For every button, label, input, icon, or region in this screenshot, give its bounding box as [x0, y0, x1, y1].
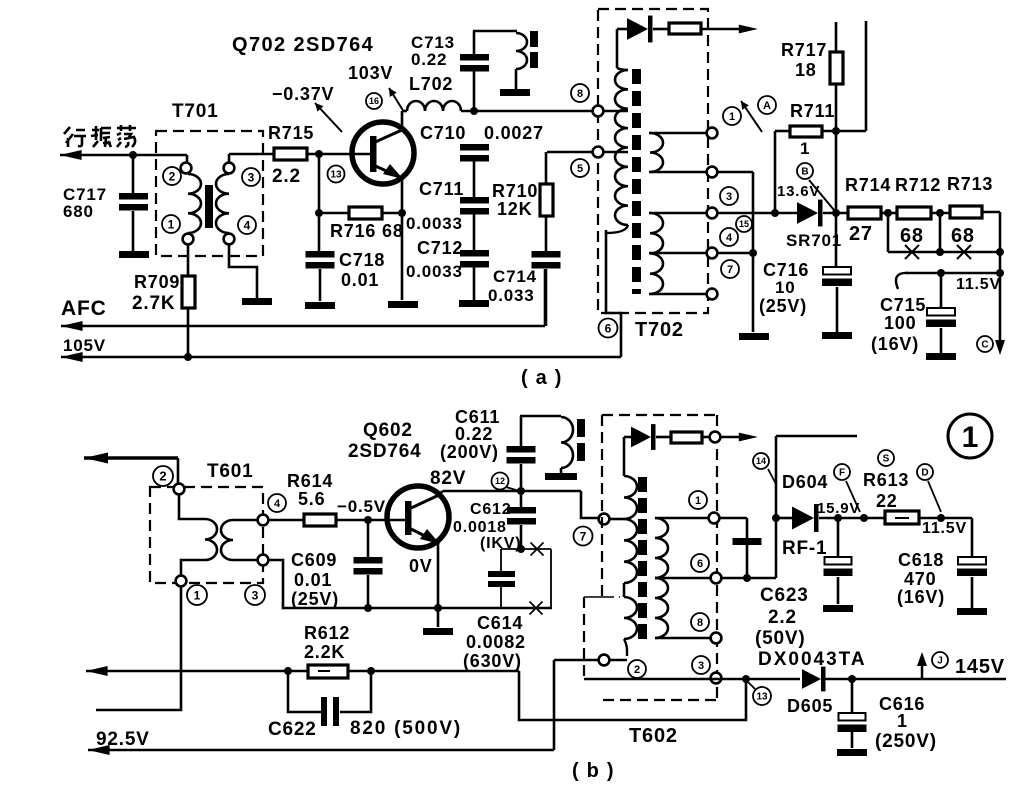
svg-text:R710: R710 — [492, 181, 538, 201]
svg-text:5: 5 — [577, 163, 583, 175]
svg-text:0.01: 0.01 — [294, 570, 332, 590]
svg-text:C618: C618 — [898, 550, 944, 570]
svg-text:680: 680 — [63, 202, 94, 221]
svg-text:7: 7 — [727, 264, 733, 276]
svg-text:(25V): (25V) — [759, 296, 807, 316]
svg-text:3: 3 — [698, 660, 704, 672]
svg-text:16: 16 — [369, 96, 379, 106]
svg-text:0V: 0V — [409, 556, 433, 576]
svg-text:0.033: 0.033 — [488, 286, 535, 305]
svg-text:C712: C712 — [417, 238, 463, 258]
svg-text:Q702 2SD764: Q702 2SD764 — [232, 34, 374, 56]
svg-text:B: B — [801, 167, 808, 178]
svg-text:R714: R714 — [845, 175, 891, 195]
svg-text:470: 470 — [904, 569, 936, 589]
svg-text:105V: 105V — [63, 336, 106, 355]
svg-text:27: 27 — [849, 223, 873, 245]
svg-text:3: 3 — [726, 191, 732, 203]
svg-text:C715: C715 — [880, 295, 926, 315]
svg-text:5.6: 5.6 — [298, 489, 325, 509]
svg-text:−0.37V: −0.37V — [272, 84, 334, 104]
svg-text:1: 1 — [897, 711, 908, 731]
svg-text:D604: D604 — [782, 472, 828, 492]
svg-text:R709: R709 — [134, 272, 180, 292]
svg-text:4: 4 — [244, 218, 251, 232]
svg-text:15: 15 — [739, 219, 749, 229]
svg-text:(IKV): (IKV) — [480, 535, 521, 552]
svg-text:R712: R712 — [895, 175, 941, 195]
svg-text:T701: T701 — [172, 101, 219, 122]
svg-text:820 (500V): 820 (500V) — [350, 718, 462, 739]
svg-text:(a): (a) — [521, 367, 569, 389]
svg-text:(250V): (250V) — [875, 731, 937, 752]
svg-text:8: 8 — [577, 88, 583, 100]
svg-text:0.0082: 0.0082 — [466, 632, 526, 652]
svg-text:6: 6 — [697, 558, 703, 570]
svg-text:2SD764: 2SD764 — [348, 441, 421, 462]
svg-text:(25V): (25V) — [291, 589, 339, 609]
svg-text:DX0043TA: DX0043TA — [758, 649, 867, 670]
svg-text:6: 6 — [605, 321, 612, 335]
svg-text:1: 1 — [800, 139, 810, 158]
svg-text:1: 1 — [695, 495, 701, 507]
svg-text:82V: 82V — [430, 468, 466, 489]
svg-text:68: 68 — [900, 225, 924, 247]
svg-text:11.5V: 11.5V — [922, 520, 967, 537]
svg-text:1: 1 — [962, 421, 979, 454]
svg-text:2: 2 — [169, 169, 176, 183]
svg-text:(50V): (50V) — [755, 628, 805, 649]
svg-text:C: C — [981, 340, 988, 351]
svg-text:2.2: 2.2 — [768, 607, 797, 628]
svg-text:R613: R613 — [863, 470, 909, 490]
svg-text:1: 1 — [194, 588, 201, 602]
svg-text:8: 8 — [697, 617, 703, 629]
svg-text:S: S — [883, 454, 890, 465]
svg-text:(b): (b) — [572, 760, 622, 782]
svg-text:C622: C622 — [268, 719, 317, 740]
svg-text:R711: R711 — [790, 101, 835, 121]
svg-text:2.7K: 2.7K — [132, 293, 175, 314]
svg-text:R716 68: R716 68 — [330, 221, 404, 241]
svg-text:68: 68 — [951, 225, 975, 247]
svg-text:15.9V: 15.9V — [817, 500, 860, 517]
svg-text:12: 12 — [495, 476, 505, 486]
svg-text:0.22: 0.22 — [455, 424, 493, 444]
svg-text:(630V): (630V) — [463, 651, 522, 671]
svg-text:AFC: AFC — [61, 297, 107, 320]
svg-text:T601: T601 — [207, 461, 254, 482]
svg-text:7: 7 — [580, 529, 587, 543]
svg-text:C714: C714 — [493, 267, 537, 286]
svg-text:22: 22 — [876, 491, 898, 511]
svg-text:10: 10 — [775, 278, 796, 297]
svg-text:C612: C612 — [470, 501, 511, 518]
svg-text:14: 14 — [756, 456, 766, 466]
svg-text:T702: T702 — [635, 319, 684, 341]
svg-text:12K: 12K — [497, 199, 532, 219]
svg-text:(200V): (200V) — [440, 442, 499, 462]
svg-text:R614: R614 — [287, 471, 333, 491]
svg-text:1: 1 — [168, 217, 175, 231]
svg-text:C718: C718 — [339, 250, 385, 270]
svg-text:4: 4 — [726, 232, 733, 244]
svg-text:C716: C716 — [763, 260, 809, 280]
svg-text:D605: D605 — [787, 696, 833, 716]
svg-text:3: 3 — [248, 170, 255, 184]
svg-text:C623: C623 — [760, 585, 809, 606]
svg-text:145V: 145V — [955, 656, 1005, 678]
svg-text:11.5V: 11.5V — [956, 276, 1001, 293]
svg-text:RF-1: RF-1 — [782, 538, 827, 559]
svg-text:0.0033: 0.0033 — [406, 214, 463, 233]
svg-text:C710: C710 — [420, 123, 466, 143]
svg-text:L702: L702 — [409, 74, 453, 94]
svg-text:4: 4 — [274, 498, 281, 510]
svg-text:(16V): (16V) — [871, 334, 919, 354]
svg-text:−0.5V: −0.5V — [337, 497, 386, 516]
svg-text:R717: R717 — [781, 40, 827, 60]
svg-text:A: A — [763, 100, 771, 112]
svg-text:R612: R612 — [304, 623, 350, 643]
svg-text:2.2: 2.2 — [272, 166, 301, 187]
svg-text:1: 1 — [729, 111, 735, 123]
svg-text:SR701: SR701 — [786, 231, 842, 250]
svg-text:C711: C711 — [419, 179, 464, 199]
svg-text:0.0018: 0.0018 — [453, 519, 507, 536]
svg-text:J: J — [937, 656, 943, 667]
svg-text:0.0027: 0.0027 — [484, 123, 544, 143]
svg-text:13: 13 — [756, 692, 768, 703]
svg-text:T602: T602 — [629, 725, 678, 747]
svg-text:R715: R715 — [268, 123, 314, 143]
svg-text:13: 13 — [330, 170, 342, 181]
svg-text:2: 2 — [634, 664, 640, 676]
svg-text:2: 2 — [159, 469, 166, 484]
svg-text:F: F — [839, 468, 845, 479]
svg-text:0.01: 0.01 — [341, 270, 379, 290]
svg-text:0.22: 0.22 — [411, 50, 447, 69]
svg-text:103V: 103V — [348, 63, 393, 83]
svg-text:0.0033: 0.0033 — [406, 262, 463, 281]
svg-text:18: 18 — [795, 60, 817, 80]
svg-text:100: 100 — [884, 313, 916, 333]
svg-text:R713: R713 — [947, 174, 993, 194]
svg-text:D: D — [921, 468, 928, 479]
svg-text:2.2K: 2.2K — [304, 642, 345, 662]
svg-text:(16V): (16V) — [897, 587, 945, 607]
svg-text:C614: C614 — [477, 613, 523, 633]
svg-text:C609: C609 — [291, 550, 337, 570]
svg-text:3: 3 — [252, 588, 259, 602]
svg-text:Q602: Q602 — [363, 420, 413, 441]
